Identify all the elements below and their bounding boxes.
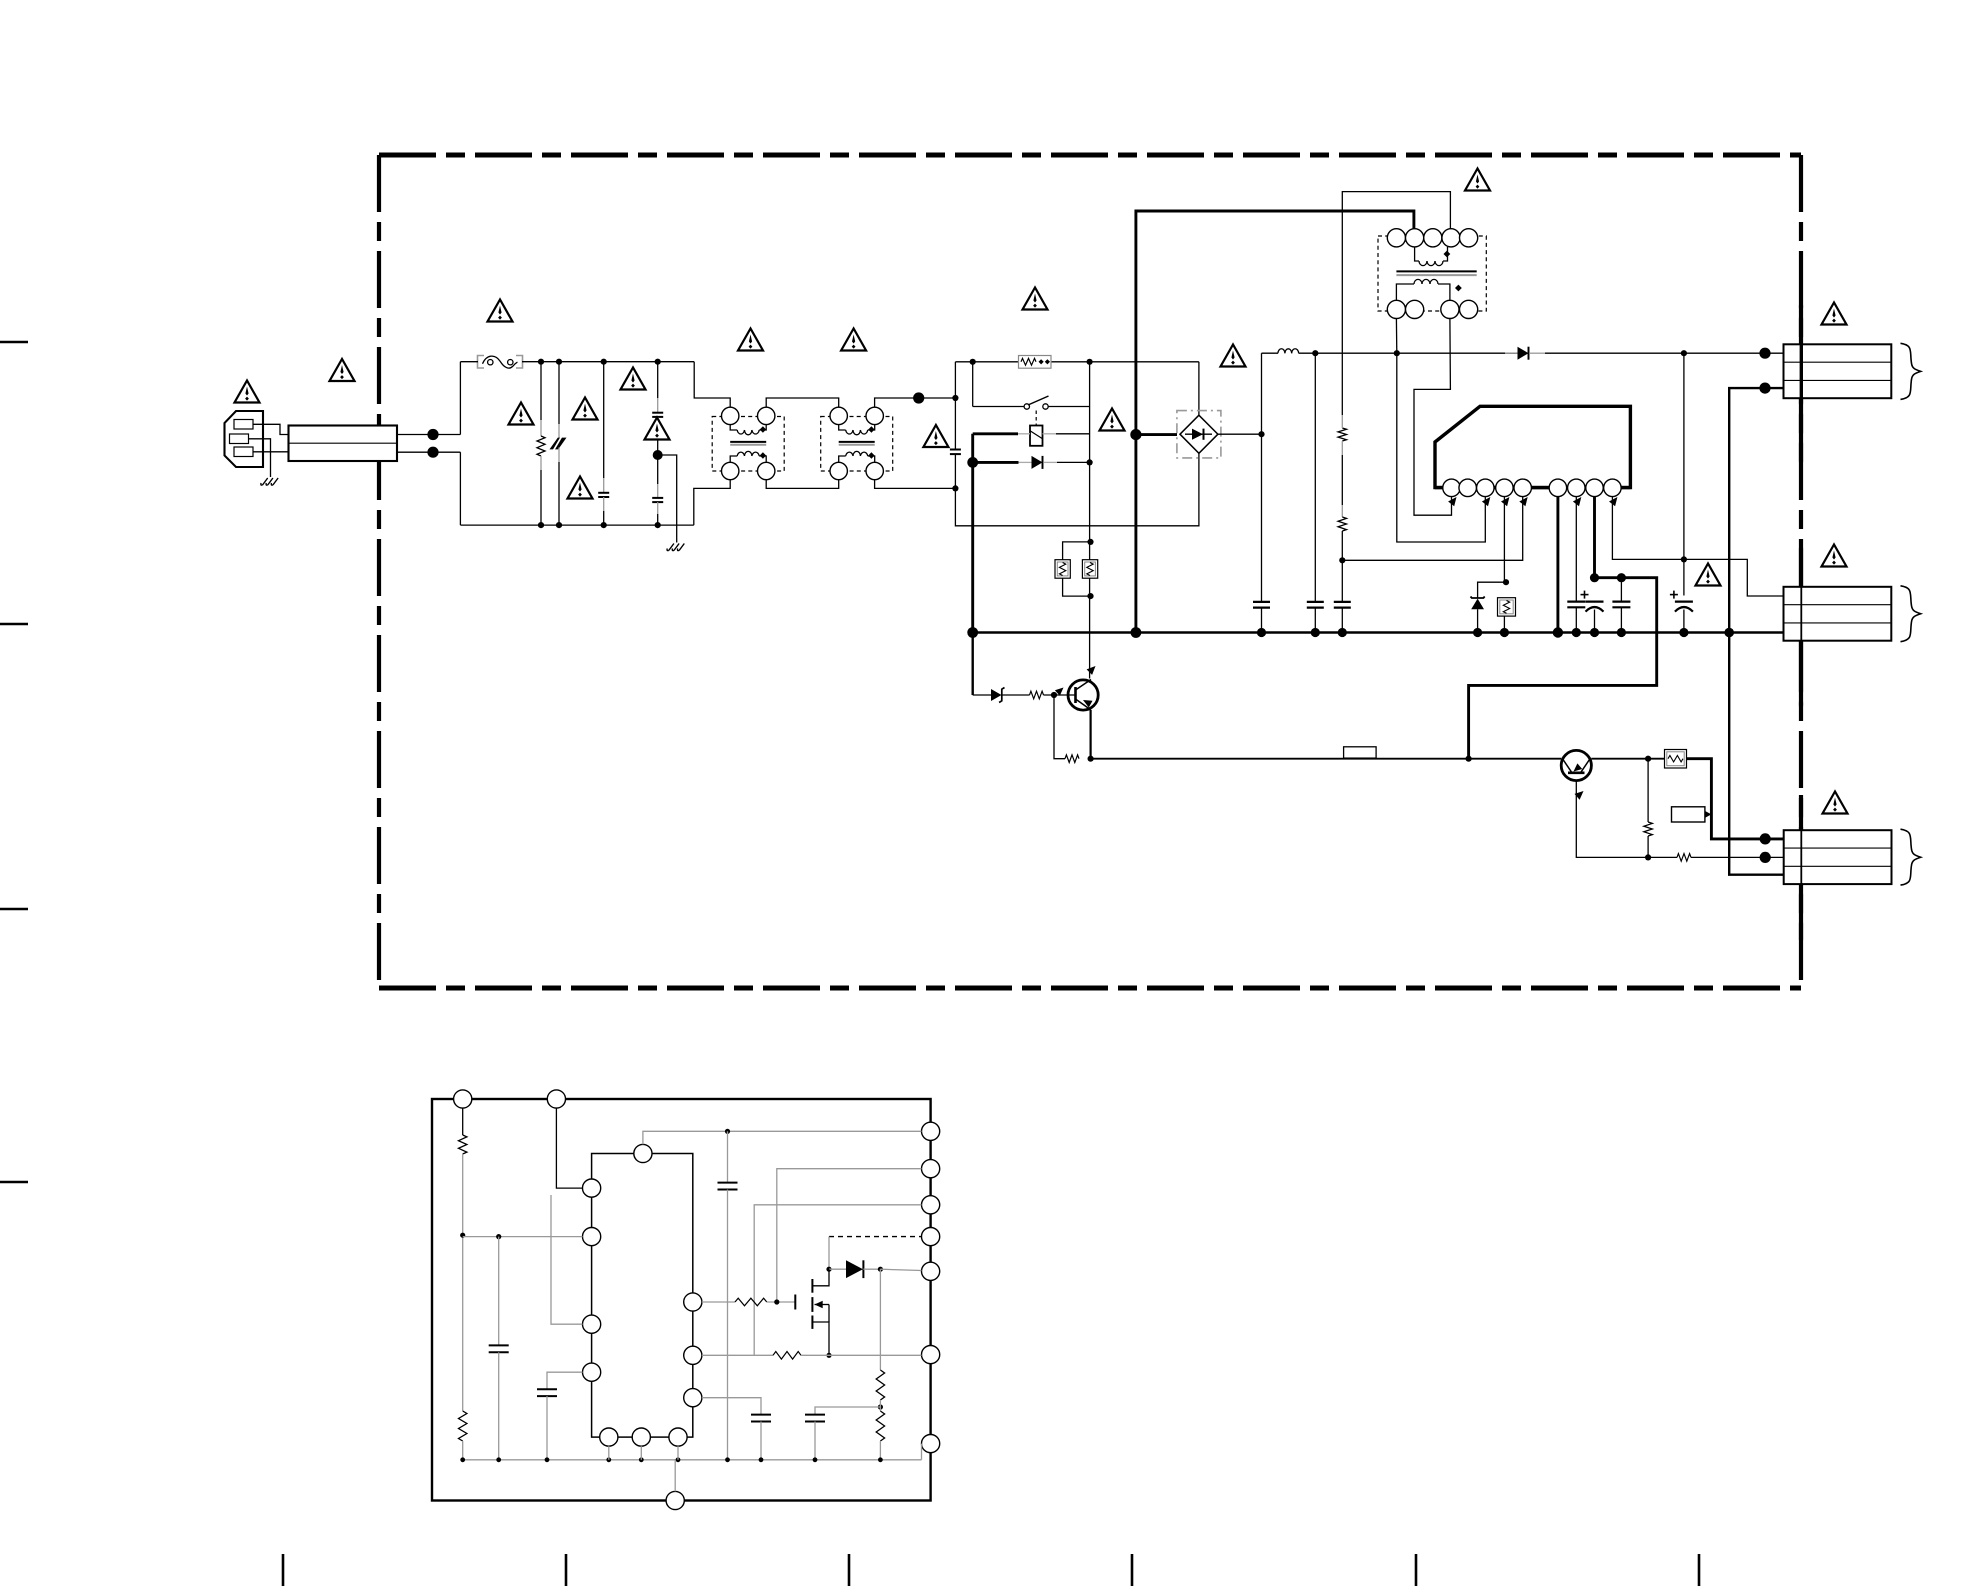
IC internal sense chain xyxy=(879,1269,881,1370)
plug pin 2 (earth) xyxy=(230,434,249,444)
junction relay diode node xyxy=(967,457,978,468)
junction rail-c2row3 xyxy=(1724,628,1734,638)
border segment inside CN2 xyxy=(1800,587,1802,641)
feedback chain wire c xyxy=(1341,531,1343,602)
IC internal resistor Rd xyxy=(876,1411,884,1460)
diode D3 xyxy=(1505,347,1545,360)
IC internal diode Dd xyxy=(829,1260,880,1278)
capacitor C11 xyxy=(1612,602,1630,608)
transistor Q1 collector arrow xyxy=(1087,666,1096,675)
junction bridge output xyxy=(1258,431,1264,437)
hybrid IC U1 body xyxy=(1435,406,1630,487)
junction rail-RV1 xyxy=(556,359,562,365)
connector CN3 xyxy=(1784,830,1892,884)
isolation boundary bottom border xyxy=(379,986,1801,991)
IC inner right pin 1 xyxy=(684,1293,702,1311)
IC internal bus dot xyxy=(813,1457,818,1462)
wire switch row b xyxy=(1048,406,1090,408)
isolation boundary right border xyxy=(1799,155,1803,988)
feedback chain wire a xyxy=(1341,353,1343,428)
wire emitter row a xyxy=(1648,856,1677,858)
IC internal bus dot xyxy=(759,1457,764,1462)
MOSFET Q3 body arrow xyxy=(815,1301,830,1308)
IC internal cap Ca xyxy=(718,1131,738,1460)
power cord C1 body xyxy=(289,426,398,462)
right border solid patch f xyxy=(1799,884,1803,940)
capacitor C3 lead xyxy=(657,362,659,413)
junction Q2 right node xyxy=(1645,756,1651,762)
IC internal wire gate row xyxy=(702,1301,735,1303)
IC internal bus dot xyxy=(545,1457,550,1462)
resistor R11 vertical xyxy=(1644,822,1652,836)
isolation boundary top border xyxy=(379,153,1801,158)
junction relay-rail xyxy=(967,627,978,638)
junction C10 tap xyxy=(1617,573,1626,582)
wire switch loop left xyxy=(972,362,974,407)
diode D2 xyxy=(1032,456,1043,469)
warning triangle W14 xyxy=(1221,345,1246,367)
left registration tick 4 xyxy=(0,1181,28,1183)
IC internal dashed row xyxy=(829,1236,922,1238)
IC internal resistor Rc xyxy=(876,1370,884,1400)
IC internal cap Cb chain xyxy=(489,1237,509,1460)
node connector3 pin2 xyxy=(1760,852,1771,863)
IC inner right pin 3 xyxy=(684,1389,702,1407)
earth ground symbol G2 xyxy=(667,544,684,551)
transistor Q1 emitter line xyxy=(1076,699,1092,710)
line filter transformer T1 xyxy=(712,407,784,480)
warning triangle W8 xyxy=(568,477,593,499)
IC internal wire drain up xyxy=(828,1237,830,1270)
fuse F1 bracket right xyxy=(516,356,523,369)
IC internal wire pin2 row xyxy=(777,1169,922,1302)
junction rail right loop xyxy=(1087,359,1093,365)
wire zener branch xyxy=(1478,582,1505,598)
wire riser C up to relay rail xyxy=(954,362,956,398)
brace CN3 xyxy=(1901,829,1921,885)
relay coil RY1 box xyxy=(1030,426,1043,446)
wire C5 to node D xyxy=(954,454,956,488)
junction B+ T secondary tap xyxy=(1394,350,1400,356)
AC plug P1 body xyxy=(225,411,264,467)
IC internal cap Cd branch xyxy=(805,1407,880,1460)
bridge rectifier D1 diamond xyxy=(1180,415,1218,453)
IC inner sub-block outline xyxy=(592,1154,693,1438)
bottom registration tick 4 xyxy=(1131,1554,1134,1586)
node connector3 pin1 xyxy=(1760,833,1771,844)
wire T sec2 to IC pin1 path xyxy=(1414,319,1452,516)
IC internal bus dot xyxy=(460,1457,465,1462)
wire C3-C4 link xyxy=(657,417,659,498)
transistor Q2 inside arrow xyxy=(1574,763,1583,771)
warning triangle W1 xyxy=(235,381,260,403)
hot ground rail xyxy=(973,631,1784,634)
junction bottom-C4 xyxy=(655,522,661,528)
line filter transformer T2 xyxy=(821,407,893,480)
connector CN1 xyxy=(1784,344,1892,398)
wire Q1 emitter xyxy=(1089,710,1091,759)
junction emitter row node xyxy=(1645,854,1651,860)
junction twin-R top xyxy=(1087,539,1093,545)
IC internal outer box xyxy=(432,1099,931,1501)
capacitor C11 lead xyxy=(1620,578,1622,602)
wire earth branch xyxy=(658,455,677,543)
IC internal wire source row b xyxy=(801,1354,922,1356)
IC internal dot cap tap xyxy=(725,1129,730,1134)
right border solid patch c xyxy=(1799,548,1803,587)
IC inner left pin 4 xyxy=(583,1363,601,1381)
IC internal wire gate row b xyxy=(767,1301,796,1303)
node connector1 pin2 xyxy=(1759,383,1770,394)
wire T1-T2 bottom link xyxy=(766,480,839,489)
IC internal wire source row xyxy=(702,1354,773,1356)
transistor Q2 body xyxy=(1561,750,1591,780)
capacitor C10 polar xyxy=(1581,591,1604,612)
wire node D to bridge return xyxy=(955,453,1199,526)
warning triangle W9 xyxy=(738,329,763,351)
resistor R8 xyxy=(1030,691,1044,699)
plug pin 1 xyxy=(234,420,253,430)
IC inner left pin 3 xyxy=(583,1315,601,1333)
IC inner pin top xyxy=(634,1144,652,1162)
feedback chain wire b xyxy=(1341,441,1343,517)
bottom registration tick 1 xyxy=(282,1554,285,1586)
warning triangle W12 xyxy=(1023,288,1048,310)
wire twin-R top bar xyxy=(1063,542,1091,560)
IC internal bus dot xyxy=(725,1457,730,1462)
junction diode row right xyxy=(1087,459,1093,465)
junction C7-rail xyxy=(1311,628,1320,637)
IC internal dot Ra-tap xyxy=(460,1233,465,1238)
capacitor C9 lead2 xyxy=(1575,607,1577,632)
fuse F1 bracket left xyxy=(478,356,485,369)
IC internal wire pin1 row xyxy=(643,1131,922,1144)
capacitor C2 xyxy=(598,493,609,497)
IC internal wire left pin2 row xyxy=(463,1236,583,1238)
capacitor C10 lead2 xyxy=(1594,610,1596,633)
wire c1 pin2 stub xyxy=(1765,387,1784,389)
IC inner left pin 1 xyxy=(583,1179,601,1197)
wire base divider xyxy=(1054,695,1065,759)
wire cord to node B (neutral) xyxy=(397,451,460,453)
boxed resistor R10 xyxy=(1665,750,1687,769)
IC internal wire pin5 row xyxy=(880,1269,921,1270)
wire diode row thick xyxy=(973,461,1032,464)
wire plug earth pin xyxy=(249,439,271,477)
IC pin3 arrow xyxy=(1482,497,1490,506)
IC internal bottom pin wire xyxy=(674,1460,676,1492)
wire pin8 feedback thick xyxy=(1469,578,1657,759)
warning triangle W10 xyxy=(841,329,866,351)
varistor RV1 lead xyxy=(558,362,560,438)
node C big junction xyxy=(913,392,924,403)
MOSFET Q3 gate bar xyxy=(794,1295,796,1310)
IC U1 pin 3 xyxy=(1477,479,1495,497)
junction bottom-C2 xyxy=(601,522,607,528)
IC internal wire left pin3 row xyxy=(551,1195,583,1324)
switching transformer T xyxy=(1378,229,1486,319)
IC pin5 arrow xyxy=(1519,497,1527,506)
wire Q2 emitter down xyxy=(1576,781,1645,858)
wire c3 pin1 stub xyxy=(1765,837,1784,840)
resistor R1 lead xyxy=(540,362,542,436)
inrush resistor R2 box xyxy=(1019,356,1052,369)
IC U1 pin 6 xyxy=(1549,479,1567,497)
transistor Q1 base arrow xyxy=(1055,688,1064,696)
warning triangle W3 xyxy=(488,300,513,322)
varistor RV1 xyxy=(550,436,567,451)
wire switch row a xyxy=(973,406,1025,408)
IC pin7 arrow xyxy=(1573,497,1581,506)
transistor Q1 emitter arrow xyxy=(1083,700,1093,708)
IC internal bus dot xyxy=(878,1457,883,1462)
isolation boundary left border xyxy=(377,155,381,988)
fuse F1 element xyxy=(483,356,518,368)
wire bridge output xyxy=(1218,433,1262,435)
IC internal right pin 6 xyxy=(922,1346,940,1364)
transistor Q2 base bar xyxy=(1568,771,1585,774)
IC internal dot gate xyxy=(774,1299,779,1304)
border segment inside CN3 xyxy=(1800,830,1802,884)
IC inner bottom pin 3 xyxy=(669,1428,687,1446)
warning triangle W6 xyxy=(621,368,646,390)
capacitor C9 xyxy=(1567,602,1585,608)
varistor RV1 lead 2 xyxy=(558,448,560,526)
capacitor C7 xyxy=(1307,602,1324,608)
junction rail-C2 xyxy=(601,359,607,365)
boxed resistor R7 xyxy=(1498,598,1516,616)
warning triangle W11 xyxy=(923,425,948,447)
IC internal source resistor Rs xyxy=(773,1352,801,1360)
right border solid patch b xyxy=(1799,398,1803,462)
node bridge input junction xyxy=(1130,429,1141,440)
capacitor C6 lead xyxy=(1261,434,1263,602)
node DC-ground junction xyxy=(1131,627,1142,638)
fusible resistor R3 box xyxy=(1055,560,1070,579)
wire diode row b xyxy=(1044,461,1090,463)
wire emitter row b xyxy=(1691,856,1765,858)
wire bridge output riser xyxy=(1261,353,1263,434)
wire switch loop right xyxy=(1089,362,1091,679)
wire riser live to fuse rail xyxy=(459,362,461,435)
wire C to capacitor C5 xyxy=(954,398,956,450)
right border solid patch a xyxy=(1799,305,1803,345)
brace CN1 xyxy=(1901,343,1921,399)
inductor L1 xyxy=(1278,349,1299,353)
wire c3 pin2 stub xyxy=(1765,856,1784,858)
capacitor C3 xyxy=(652,413,663,417)
fusible resistor R3 element xyxy=(1059,563,1065,576)
junction pin8 node xyxy=(1590,573,1599,582)
left registration tick 1 xyxy=(0,341,28,343)
wire relay coil to right xyxy=(1043,433,1090,435)
component box JP2 xyxy=(1672,807,1712,822)
junction twin-R bottom xyxy=(1087,593,1093,599)
resistor R9 xyxy=(1065,755,1079,763)
junction C8-rail xyxy=(1338,628,1347,637)
capacitor C7 lead2 xyxy=(1314,608,1316,633)
wire ground to connector3 pin3 thick xyxy=(1729,633,1784,875)
relay switch S1 contacts xyxy=(1024,396,1048,409)
IC internal bus to right pin xyxy=(921,1444,923,1460)
fusible resistor R4 box xyxy=(1082,560,1097,579)
junction C12-rail xyxy=(1679,628,1688,637)
wire DC thick feed xyxy=(1136,211,1414,435)
wire T feedback top xyxy=(1342,192,1450,354)
right border solid patch e xyxy=(1799,795,1803,831)
warning triangle W19 xyxy=(1823,792,1848,814)
resistor R1 lead 2 xyxy=(540,456,542,525)
earth ground symbol at plug xyxy=(261,478,278,485)
bottom registration tick 2 xyxy=(565,1554,568,1586)
wire T sec1 to B+ tap xyxy=(1395,319,1397,354)
border segment inside CN1 xyxy=(1800,344,1803,398)
capacitor C8 xyxy=(1334,602,1351,608)
IC pin9 arrow xyxy=(1609,497,1617,506)
IC internal ground bus xyxy=(463,1459,922,1461)
IC internal right pin 5 xyxy=(922,1262,940,1280)
inrush resistor R2 element xyxy=(1021,358,1050,365)
wire T sec1 tap down to IC pin3 path xyxy=(1397,353,1486,542)
MOSFET Q3 channel segs xyxy=(811,1279,813,1329)
IC U1 pin 5 xyxy=(1514,479,1532,497)
junction C3-C4 node xyxy=(653,450,663,460)
wire top rail corner to T1 xyxy=(694,362,730,408)
connector CN2 xyxy=(1784,587,1892,641)
warning triangle W7 xyxy=(645,418,670,440)
IC U1 pin 9 xyxy=(1604,479,1622,497)
warning triangle W13 xyxy=(1100,409,1125,431)
wire B+ rail b xyxy=(1299,352,1518,354)
IC internal bus dot xyxy=(676,1457,681,1462)
IC internal right pin 4 xyxy=(922,1228,940,1246)
IC internal resistor Ra xyxy=(459,1108,467,1235)
left registration tick 2 xyxy=(0,623,28,625)
IC internal dot source xyxy=(826,1353,831,1358)
node D junction xyxy=(952,485,958,491)
zener diode ZD1 xyxy=(1471,597,1485,633)
junction R7-rail xyxy=(1500,628,1509,637)
junction pin9-B+ node xyxy=(1681,556,1687,562)
junction C9-rail xyxy=(1572,628,1581,637)
IC U1 pin 4 xyxy=(1496,479,1514,497)
wire B+ rail c xyxy=(1545,352,1765,354)
wire rail to bridge top xyxy=(1198,362,1200,415)
wire connector1 pin2 thick xyxy=(1729,388,1765,632)
IC inner right pin 2 xyxy=(684,1346,702,1364)
junction B+ C6 tap xyxy=(1312,350,1318,356)
junction rail left loop xyxy=(970,359,976,365)
capacitor C12 lead2 xyxy=(1683,610,1685,633)
wire to connector2 pin1 xyxy=(1684,559,1784,596)
IC U1 pin 1 xyxy=(1443,479,1461,497)
node connector1 pin1 xyxy=(1759,348,1770,359)
transistor Q2 bottom arrow xyxy=(1575,791,1584,800)
wire zener row xyxy=(973,694,991,696)
IC internal dot sense xyxy=(878,1404,883,1409)
junction pin6-rail xyxy=(1553,627,1563,637)
wire relay drive to zener row xyxy=(972,633,974,696)
wire Q2 row to R10 xyxy=(1648,758,1664,760)
IC internal dot drain xyxy=(826,1267,831,1272)
junction node C on riser xyxy=(952,395,958,401)
warning triangle W2 xyxy=(330,359,355,381)
wire riser neutral to bottom rail xyxy=(459,452,461,525)
IC U1 pin 7 xyxy=(1568,479,1586,497)
wire feedback row xyxy=(1091,758,1562,760)
IC pin4 arrow xyxy=(1501,497,1509,506)
left registration tick 3 xyxy=(0,908,28,910)
IC internal bottom pin xyxy=(666,1491,684,1509)
wire pin8 thick lead xyxy=(1593,497,1596,578)
junction bottom-R1 xyxy=(538,522,544,528)
IC U1 pin 2 xyxy=(1459,479,1477,497)
plug pin 3 xyxy=(234,447,253,457)
IC internal pin T2c xyxy=(547,1090,565,1108)
wire relay drive vertical xyxy=(971,434,974,633)
brace CN2 xyxy=(1901,586,1921,642)
warning triangle W5 xyxy=(573,398,598,420)
wire R10 to connector3 pin1 thick xyxy=(1687,759,1766,839)
capacitor C6 lead2 xyxy=(1261,608,1263,633)
bottom registration tick 3 xyxy=(848,1554,851,1586)
IC U1 pin bottom edge xyxy=(1435,486,1630,489)
IC internal right pin 2 xyxy=(922,1160,940,1178)
capacitor C2 lead xyxy=(603,362,605,493)
bottom registration tick 5 xyxy=(1415,1554,1418,1586)
warning triangle W18 xyxy=(1696,564,1721,586)
wire top rail segment b xyxy=(522,361,694,363)
wire pin7 lead xyxy=(1575,497,1577,602)
wire pin6 thick lead xyxy=(1556,497,1559,633)
junction pin4 node xyxy=(1503,579,1509,585)
capacitor C4 xyxy=(652,498,663,502)
right border solid patch d xyxy=(1799,641,1803,707)
IC internal right pin 3 xyxy=(922,1196,940,1214)
power cord divider xyxy=(289,442,398,444)
IC internal gate resistor Rg xyxy=(735,1298,767,1306)
wire top rail segment a xyxy=(460,361,478,363)
IC internal bus dot xyxy=(606,1457,611,1462)
jumper label box JP1 xyxy=(1344,747,1377,759)
junction Q1 base node xyxy=(1051,692,1057,698)
IC internal wire top2 xyxy=(556,1108,582,1188)
zener diode ZD2 xyxy=(991,688,1005,703)
IC internal chain gray xyxy=(462,1235,464,1411)
MOSFET Q3 source stub xyxy=(812,1305,829,1356)
IC internal wire pin3 row xyxy=(754,1205,921,1356)
capacitor C2 lead 2 xyxy=(603,497,605,525)
wire R7 to rail xyxy=(1503,616,1505,632)
relay coil dashed link xyxy=(1035,411,1037,427)
node B junction (neutral) xyxy=(427,447,438,458)
feedback resistor R5 xyxy=(1338,428,1346,441)
capacitor C6 xyxy=(1253,602,1270,608)
IC internal dot l2 xyxy=(496,1234,501,1239)
bottom registration tick 6 xyxy=(1698,1554,1701,1586)
transistor Q2 leg lines xyxy=(1563,760,1590,773)
warning triangle W17 xyxy=(1822,545,1847,567)
resistor R1 xyxy=(537,436,545,456)
capacitor C8 lead2 xyxy=(1341,608,1343,633)
junction feedback row node xyxy=(1466,756,1472,762)
junction C11-rail xyxy=(1617,628,1626,637)
capacitor C11 lead2 xyxy=(1620,607,1622,632)
junction rail-C3 xyxy=(655,359,661,365)
wire bottom rail xyxy=(460,524,693,526)
junction B+ filter tap xyxy=(1681,350,1687,356)
junction bottom-RV1 xyxy=(556,522,562,528)
